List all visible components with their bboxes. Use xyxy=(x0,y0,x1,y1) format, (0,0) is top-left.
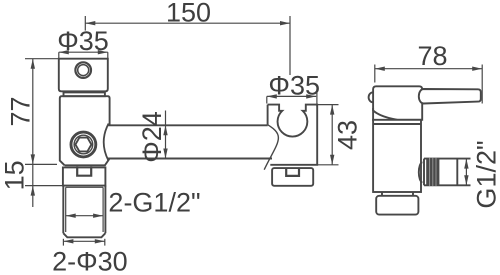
hex screw outer ring xyxy=(71,132,96,157)
outlet top line xyxy=(424,158,471,160)
dim phi35 bracket arrows xyxy=(267,94,316,98)
threaded stem top line xyxy=(66,186,103,188)
dim G1/2 arrows xyxy=(464,159,468,186)
faucet body seam xyxy=(373,123,421,125)
hex screw hexagon xyxy=(75,138,91,152)
body bottom notch xyxy=(77,166,91,175)
dim 78 arrows xyxy=(375,67,482,71)
top block hole inner circle xyxy=(78,65,89,76)
faucet body xyxy=(373,120,421,192)
dim 150 arrow right xyxy=(280,21,290,25)
top block (left view) xyxy=(59,59,108,92)
dim 150 arrow left xyxy=(85,21,95,25)
dim phi24 arrows xyxy=(163,125,167,158)
top block hole outer circle xyxy=(75,62,91,78)
svg-text:77: 77 xyxy=(6,96,36,126)
svg-text:43: 43 xyxy=(333,120,363,150)
dim phi35 left line xyxy=(59,52,108,59)
svg-text:2-Φ30: 2-Φ30 xyxy=(52,247,128,275)
outlet transition arc xyxy=(419,162,423,182)
dim 150 line xyxy=(85,16,290,75)
holder bracket left fillet curve xyxy=(264,125,278,170)
dim phi24 line xyxy=(165,111,167,159)
svg-text:Φ24: Φ24 xyxy=(137,111,167,163)
arm top edge xyxy=(108,124,268,126)
neck ring xyxy=(64,92,105,96)
hex screw middle circle xyxy=(74,135,93,154)
dim 2-G1/2 line xyxy=(66,215,103,217)
svg-text:150: 150 xyxy=(166,0,211,27)
threaded stem bottom with chamfers xyxy=(63,233,105,237)
15mm box xyxy=(63,167,106,185)
arm bottom edge xyxy=(108,158,272,160)
outlet thread stripes xyxy=(430,158,436,186)
svg-text:2-G1/2": 2-G1/2" xyxy=(108,188,200,218)
threaded stem outer left xyxy=(62,186,64,234)
outlet thread block xyxy=(426,158,439,185)
holder bracket flange notch xyxy=(286,168,299,176)
threaded stem inner right xyxy=(102,187,104,232)
dim phi35 bracket line xyxy=(267,92,317,106)
svg-text:G1/2": G1/2" xyxy=(472,140,500,208)
threaded stem outer right xyxy=(104,186,106,234)
outlet left edge xyxy=(423,159,425,186)
faucet left pivot bulge xyxy=(369,92,374,102)
dim phi35 left arrows xyxy=(59,50,108,54)
faucet handle bar xyxy=(419,89,481,104)
holder bracket bottom flange xyxy=(272,168,313,186)
dim 2-phi30 arrows xyxy=(63,239,104,243)
faucet foot step xyxy=(382,192,413,196)
dim 43 lines xyxy=(308,105,339,165)
dim 77 arrows xyxy=(31,59,35,165)
holder bracket left edge xyxy=(267,105,269,125)
holder bracket outline with keyhole cutout xyxy=(268,105,318,165)
outlet bottom line xyxy=(424,184,471,186)
dim G1/2 line xyxy=(465,159,467,186)
faucet foot flange xyxy=(376,196,418,215)
svg-text:15: 15 xyxy=(0,160,30,190)
dim 2-phi30 ext lines xyxy=(63,239,104,246)
dim 78 line xyxy=(375,65,482,104)
dim 43 arrows xyxy=(330,105,334,165)
dim 15 arrows xyxy=(31,186,35,196)
dim 2-G1/2 arrows xyxy=(66,214,103,218)
svg-text:78: 78 xyxy=(417,41,447,71)
faucet left edge continuity xyxy=(372,108,374,121)
threaded stem inner left xyxy=(65,187,67,232)
dim 77/15 vertical line xyxy=(25,59,62,207)
outlet nut right edge xyxy=(456,159,458,186)
faucet lever cap block xyxy=(373,86,422,120)
arm body junction arc xyxy=(104,124,109,161)
body (left view) xyxy=(60,96,110,165)
